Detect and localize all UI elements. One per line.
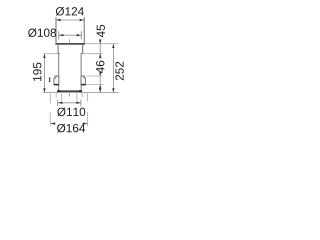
ext step left xyxy=(43,53,57,55)
small clip mark left xyxy=(49,78,51,82)
pipe walls xyxy=(59,54,82,91)
dim 252 xyxy=(112,44,114,93)
top center tick xyxy=(68,39,70,43)
dim O110 xyxy=(58,100,81,107)
pipe bottom rim xyxy=(58,90,82,92)
plate line xyxy=(43,92,118,94)
collar box walls xyxy=(58,45,83,54)
stack line 45/46 xyxy=(99,40,101,92)
ext tab bottom xyxy=(86,84,103,86)
ext A collar top xyxy=(85,43,119,45)
left tab xyxy=(54,76,59,84)
dim O124 xyxy=(56,7,84,16)
dim O108 xyxy=(28,28,56,37)
right tab xyxy=(81,76,86,84)
dim O164 xyxy=(50,93,87,126)
bottom center tick xyxy=(68,92,70,97)
text 46 xyxy=(96,61,104,73)
dim 195 xyxy=(43,54,45,93)
ext B step right xyxy=(83,53,103,55)
text 45 xyxy=(97,25,105,37)
socket outer walls xyxy=(56,17,84,43)
step corners xyxy=(58,52,83,54)
ext tab top xyxy=(86,75,102,77)
stub lines below plate xyxy=(56,93,82,97)
collar top rim xyxy=(55,43,85,45)
